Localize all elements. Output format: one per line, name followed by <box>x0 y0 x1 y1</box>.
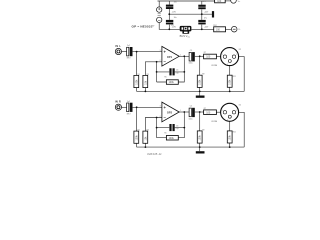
connector K1 (USB power) <box>171 25 191 38</box>
svg-text:100: 100 <box>216 28 221 31</box>
battery BT2 <box>157 17 162 22</box>
node junction dots power <box>168 13 170 15</box>
wire cap column 2 <box>201 1 203 5</box>
wire V- rail <box>169 28 231 30</box>
wire V+ to terminal <box>225 0 231 2</box>
capacitor C9 (top left elco) <box>166 2 177 14</box>
svg-text:K1: K1 <box>171 25 173 27</box>
svg-text:R12: R12 <box>213 25 216 27</box>
capacitor C11 (top right elco) <box>198 1 209 13</box>
capacitor C12 (lower right elco) <box>198 18 209 29</box>
capacitor C10 (lower left elco) <box>166 17 177 28</box>
svg-text:10u: 10u <box>174 17 177 19</box>
svg-text:47u: 47u <box>204 18 207 20</box>
resistor R12 (to V-) <box>213 25 225 32</box>
svg-text:OP2: OP2 <box>167 111 173 115</box>
terminal V- <box>231 26 237 32</box>
wire cap column 1 <box>168 1 170 5</box>
wire battery column <box>158 1 160 7</box>
wire top V+ rail <box>158 0 215 2</box>
svg-text:IN R: IN R <box>115 99 121 103</box>
ground (right-pointing bar) <box>212 11 214 17</box>
wire mid ground rail <box>169 13 212 15</box>
resistor R11 (top, to V+) <box>215 0 226 3</box>
terminal V+ <box>231 0 237 3</box>
svg-text:100: 100 <box>217 0 222 3</box>
svg-text:OP = NE5532: OP = NE5532 <box>132 25 153 29</box>
svg-text:47u: 47u <box>203 1 206 3</box>
svg-text:10u: 10u <box>174 2 177 4</box>
svg-text:IN L: IN L <box>115 44 121 48</box>
battery polarity marks <box>158 14 161 16</box>
battery BT1 <box>157 7 162 12</box>
svg-text:BUS V: BUS V <box>180 34 188 38</box>
svg-text:V-: V- <box>238 29 240 31</box>
svg-text:OP1: OP1 <box>167 55 173 59</box>
svg-text:040345-11: 040345-11 <box>147 152 162 156</box>
